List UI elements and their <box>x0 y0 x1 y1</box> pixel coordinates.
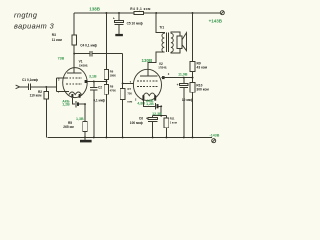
V1 anode lead <box>73 54 75 74</box>
V2 filament <box>143 93 155 96</box>
svg-text:1,3В: 1,3В <box>76 117 84 121</box>
tube V1 envelope <box>63 68 88 98</box>
svg-text:11,9В: 11,9В <box>178 73 188 77</box>
svg-text:C4 0,1 мкф: C4 0,1 мкф <box>80 44 97 48</box>
wire secondary to speaker <box>171 32 180 53</box>
svg-text:470К: 470К <box>110 88 116 92</box>
Tr1 core <box>167 33 169 52</box>
wire C1 to grid <box>31 86 57 88</box>
svg-text:12,3В: 12,3В <box>152 112 162 116</box>
svg-text:-143В: -143В <box>210 134 220 138</box>
svg-text:вариант 3: вариант 3 <box>14 21 54 30</box>
wire R3 to V1 anode node <box>73 45 75 54</box>
pin 3 mark V2 right <box>162 76 165 79</box>
svg-text:110 ком: 110 ком <box>30 93 42 97</box>
V2 grid 2 dashed <box>137 80 158 82</box>
V1 grid 1 dashed <box>66 83 82 85</box>
wire C2 to bus <box>93 90 95 138</box>
svg-text:1,2В: 1,2В <box>62 103 70 107</box>
capacitor C1 <box>28 84 30 91</box>
resistor R4 <box>134 12 143 15</box>
V2 grid 1 dashed <box>137 86 158 88</box>
node battery junction <box>84 103 86 105</box>
ground symbol <box>84 137 86 139</box>
svg-text:300 ком: 300 ком <box>196 88 209 92</box>
wire rail to R6 <box>105 13 107 70</box>
wire top rail right of R4 to +143V terminal <box>143 12 220 14</box>
node C7 junction <box>183 77 185 79</box>
terminal +143В <box>220 11 224 15</box>
svg-text:+: + <box>113 17 115 21</box>
svg-text:R11: R11 <box>170 116 175 120</box>
node divider junction <box>192 71 194 82</box>
wire input to C1 <box>20 86 28 88</box>
resistor R10 <box>190 82 195 92</box>
node R6 R8 junction <box>105 79 107 84</box>
svg-text:C1 0,1мкф: C1 0,1мкф <box>22 78 38 82</box>
capacitor C2 <box>93 82 95 88</box>
resistor R3 <box>73 13 75 35</box>
svg-text:R3: R3 <box>52 33 56 37</box>
svg-text:11 ком: 11 ком <box>52 38 63 42</box>
resistor R7 <box>122 83 124 88</box>
ground bus <box>47 136 212 138</box>
svg-text:R7: R7 <box>128 87 132 91</box>
svg-text:R8: R8 <box>110 85 114 89</box>
wire R5 to bus <box>84 132 86 138</box>
capacitor C7 10 мкф <box>183 78 185 84</box>
capacitor C6 <box>152 116 154 118</box>
svg-text:C5 10 мкф: C5 10 мкф <box>127 22 143 26</box>
Tr1 primary lead <box>156 13 164 33</box>
svg-text:750: 750 <box>127 92 132 96</box>
node rail R9 junction <box>192 12 194 14</box>
svg-text:rngtng: rngtng <box>14 10 37 19</box>
svg-text:1Ж29Б: 1Ж29Б <box>79 64 88 68</box>
wire V1 grid bus <box>57 78 69 91</box>
pin 1 mark V1 right <box>85 80 88 83</box>
svg-text:+: + <box>177 83 179 87</box>
node V2 cathode junction <box>160 105 162 107</box>
node V1 anode junction <box>73 53 75 55</box>
svg-text:138В: 138В <box>89 7 101 12</box>
Tr1 primary to V2 anode <box>148 52 164 76</box>
node rail R6 junction <box>105 12 107 14</box>
resistor R6 <box>104 70 109 80</box>
svg-text:10 мкф: 10 мкф <box>182 98 193 102</box>
node rail Tr1 junction <box>155 12 157 14</box>
V1 filament <box>69 92 82 95</box>
input terminal arrow <box>16 85 20 89</box>
svg-text:1,2В: 1,2В <box>146 102 154 106</box>
Tr1 secondary coil <box>171 33 173 52</box>
svg-text:0,1 мкф: 0,1 мкф <box>93 98 105 102</box>
resistor R5 <box>84 104 86 121</box>
capacitor C4 <box>74 53 89 55</box>
svg-text:C2: C2 <box>98 85 102 89</box>
svg-text:R4 5,1 ком: R4 5,1 ком <box>130 7 151 11</box>
wire R10 to bus <box>192 92 194 137</box>
svg-text:1П24Б: 1П24Б <box>158 65 166 69</box>
node rail C5 junction <box>118 12 120 14</box>
V1 grid 2 dashed <box>66 77 82 79</box>
svg-text:R6: R6 <box>110 70 114 74</box>
Tr1 primary coil <box>162 33 164 52</box>
V1 filament legs <box>72 94 79 98</box>
svg-text:43 ком: 43 ком <box>197 65 208 69</box>
node C2 junction <box>93 81 95 83</box>
terminal -143В <box>212 139 216 143</box>
svg-text:+143В: +143В <box>209 18 223 23</box>
capacitor C5 <box>118 13 120 21</box>
svg-text:180К: 180К <box>110 73 116 77</box>
resistor R2 <box>45 87 47 92</box>
svg-text:3,1В: 3,1В <box>89 74 97 78</box>
ground of C5 <box>115 34 123 36</box>
node R2 junction <box>45 86 47 88</box>
svg-text:С6: С6 <box>139 116 143 120</box>
resistor R11 <box>165 116 167 118</box>
svg-text:ком: ком <box>127 101 132 104</box>
V2 filament legs <box>143 95 155 100</box>
V2 anode plate <box>140 75 158 77</box>
svg-text:265 ом: 265 ом <box>63 125 74 129</box>
wire top +130V rail left of R4 <box>74 12 134 14</box>
wire V2 pin3 to divider <box>162 77 193 79</box>
svg-text:1 ком: 1 ком <box>170 120 177 124</box>
node V2 grid junction <box>122 82 124 84</box>
resistor R9 <box>192 13 194 62</box>
svg-text:V1: V1 <box>79 60 83 64</box>
svg-text:100 мкф: 100 мкф <box>130 121 143 125</box>
wire R2 to ground bus <box>45 99 47 137</box>
wire R8 to bus <box>105 94 107 137</box>
resistor R8 <box>104 84 109 94</box>
wire to C6 R11 <box>153 106 167 115</box>
svg-text:73В: 73В <box>58 56 65 60</box>
wire V1 pin to divider <box>87 81 106 83</box>
tube V2 envelope <box>133 69 161 100</box>
wire R7 to bus <box>122 100 124 138</box>
svg-text:130В: 130В <box>142 58 154 63</box>
wire C4 to V2 grid <box>123 54 134 84</box>
svg-text:Tr1: Tr1 <box>159 26 164 30</box>
speaker <box>177 36 182 49</box>
V1 anode plate <box>67 72 82 74</box>
svg-text:4,8В: 4,8В <box>137 102 145 106</box>
